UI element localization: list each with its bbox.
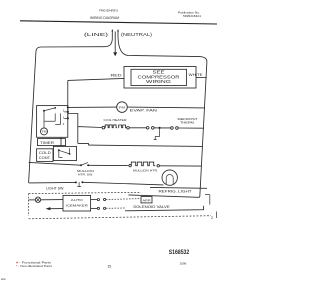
- svg-text:REFRIG. LIGHT: REFRIG. LIGHT: [159, 189, 192, 193]
- defrost thermostat contacts: [146, 127, 149, 130]
- defrost thermostat sensor hook: [154, 128, 160, 140]
- node fan tap junction: [67, 106, 69, 108]
- wire timer jog to heater row: [68, 114, 102, 146]
- svg-text:WIRING: WIRING: [146, 79, 171, 84]
- timer motor TM: [41, 128, 48, 135]
- svg-text:15: 15: [107, 265, 111, 269]
- mullion heater R1 terminal: [129, 164, 131, 166]
- svg-text:* - Non-Illustrated Parts: * - Non-Illustrated Parts: [16, 264, 53, 268]
- refrigerator lamp DS1: [162, 170, 177, 185]
- wire line side from plug to left bus: [36, 37, 112, 52]
- light switch S2: [75, 181, 77, 183]
- auto icemaker box: [63, 195, 91, 211]
- svg-text:TIMER: TIMER: [40, 141, 55, 145]
- timer internal wiring: [44, 111, 61, 128]
- wire red vertical drop: [67, 80, 69, 118]
- svg-text:CONT.: CONT.: [39, 156, 51, 160]
- wire mullion heater row: [29, 162, 81, 165]
- svg-text:WIRING DIAGRAM: WIRING DIAGRAM: [90, 16, 119, 20]
- svg-text:RED: RED: [111, 74, 123, 78]
- svg-text:THERM.: THERM.: [180, 121, 195, 125]
- svg-text:2: 2: [211, 216, 213, 220]
- wire left bus: [29, 52, 36, 183]
- svg-text:HTR. SW.: HTR. SW.: [78, 173, 93, 177]
- icemaker dashed enclosure left: [28, 194, 30, 216]
- wire coil heater row: [129, 127, 146, 129]
- connector contacts upper: [97, 199, 99, 201]
- svg-text:LIGHT SW.: LIGHT SW.: [46, 186, 64, 190]
- svg-text:EVAP. FAN: EVAP. FAN: [130, 109, 158, 113]
- wire timer to cold control: [60, 137, 62, 146]
- wire right bus: [128, 62, 207, 198]
- wire icemaker upper output: [91, 199, 98, 201]
- node timer terminal 2: [67, 111, 69, 113]
- svg-text:MULLION HTR.: MULLION HTR.: [133, 169, 158, 173]
- mullion heater R1 element: [131, 162, 155, 166]
- icemaker dashed enclosure bottom: [29, 216, 211, 219]
- wire fan to neutral bus: [127, 106, 205, 109]
- evap fan motor M1: [117, 102, 128, 113]
- ground pin: [114, 32, 116, 53]
- coil heater terminal: [102, 126, 105, 129]
- coil heater element 1: [105, 125, 117, 128]
- timer terminal ticks: [64, 112, 68, 119]
- connector contacts lower: [97, 207, 99, 209]
- dashed corner mark: [215, 212, 217, 219]
- svg-text:COIL HEATER: COIL HEATER: [104, 118, 128, 122]
- wire light switch row: [29, 181, 75, 184]
- cold control switch box: [54, 146, 77, 160]
- wire to neutral bus: [178, 127, 204, 129]
- wire: [88, 164, 129, 166]
- svg-text:S168532: S168532: [169, 250, 190, 256]
- wire to neutral bus: [159, 165, 201, 167]
- wire solenoid return: [125, 206, 204, 211]
- svg-text:(NEUTRAL): (NEUTRAL): [121, 32, 152, 38]
- svg-text:WHITE: WHITE: [189, 73, 204, 77]
- wire: [41, 199, 63, 201]
- wire long run to neutral bus: [88, 145, 202, 146]
- dashed wire to valve: [106, 198, 141, 201]
- header rule: [20, 21, 217, 24]
- timer switch blade: [43, 110, 45, 112]
- svg-text:ebd: ebd: [1, 277, 6, 281]
- coil heater element 2: [118, 125, 126, 128]
- node defrost thermo junction: [159, 127, 161, 129]
- compressor box outer U1: [124, 67, 196, 89]
- plug prong left: [111, 31, 113, 37]
- defrost timer box: [37, 106, 68, 138]
- wire red feed to compressor: [68, 78, 124, 80]
- svg-text:5995218441: 5995218441: [183, 14, 201, 18]
- dashed wire: [106, 207, 126, 209]
- wire icemaker feed: [29, 199, 36, 201]
- svg-text:AUTO: AUTO: [71, 198, 84, 202]
- terminal: [157, 165, 159, 167]
- compressor box inner: [131, 69, 187, 85]
- icemaker dashed enclosure top: [29, 192, 141, 193]
- timer label box: [38, 139, 66, 146]
- wire neutral side from plug to right bus: [118, 37, 207, 62]
- svg-text:ICEMAKER: ICEMAKER: [66, 204, 89, 208]
- wire compressor to neutral bus: [196, 77, 207, 79]
- node timer terminal 1: [67, 117, 69, 119]
- svg-text:COLD: COLD: [39, 151, 52, 155]
- mullion heater switch S1: [80, 164, 82, 166]
- terminal: [127, 127, 130, 130]
- svg-text:APP: APP: [143, 198, 151, 202]
- svg-text:1096: 1096: [180, 261, 187, 265]
- svg-text:(LINE): (LINE): [84, 32, 109, 38]
- svg-text:SOLENOID VALVE: SOLENOID VALVE: [133, 205, 170, 209]
- arrow water fill tube: [46, 207, 51, 210]
- wire to lamp: [82, 182, 163, 185]
- cold control label box: [37, 149, 53, 162]
- svg-text:FRIGIDAIRE'S: FRIGIDAIRE'S: [99, 9, 118, 13]
- lamp filament: [166, 175, 173, 185]
- icemaker mold heater symbol: [35, 197, 40, 202]
- wire icemaker lower output: [91, 207, 98, 209]
- valve APP box: [141, 197, 152, 203]
- svg-text:FM: FM: [119, 105, 126, 109]
- wire evap fan feed: [68, 106, 117, 108]
- wire lamp to neutral bus: [150, 186, 207, 189]
- bracket right: [205, 195, 210, 205]
- plug prong right: [117, 31, 119, 37]
- cold control contacts: [58, 149, 60, 151]
